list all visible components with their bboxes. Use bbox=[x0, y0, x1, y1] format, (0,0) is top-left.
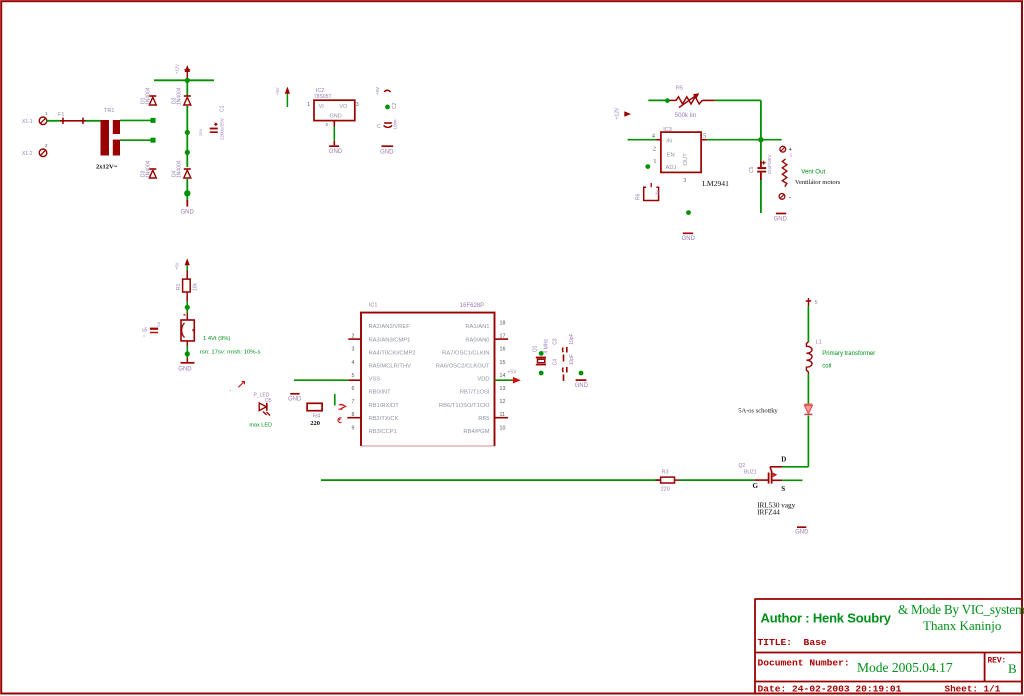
Vent Out green label bbox=[801, 169, 825, 176]
capacitor C1 labels bbox=[198, 105, 226, 140]
svg-text:5: 5 bbox=[815, 300, 818, 306]
svg-text:3: 3 bbox=[683, 177, 686, 184]
svg-text:6: 6 bbox=[352, 386, 355, 392]
junction below crystal bbox=[539, 371, 544, 376]
wire +12V rail horizontal bbox=[154, 79, 214, 81]
svg-text:+5V: +5V bbox=[508, 369, 518, 375]
svg-text:R3: R3 bbox=[662, 469, 669, 475]
capacitor C5 name bbox=[749, 166, 755, 173]
IC3 EN pin name bbox=[667, 152, 675, 158]
IC1 left pin name row 4 bbox=[369, 364, 412, 370]
capacitor C5 value bbox=[767, 154, 772, 175]
ground pin under rectifier bbox=[186, 200, 188, 207]
ground pin under trimpot bbox=[186, 359, 188, 363]
svg-text:GND: GND bbox=[288, 397, 302, 403]
svg-text:10k: 10k bbox=[192, 282, 198, 291]
inductor L1 annotation bbox=[822, 351, 875, 369]
resistor R4 value bbox=[310, 420, 320, 427]
capacitor C3 name bbox=[553, 338, 559, 345]
svg-text:C2: C2 bbox=[392, 102, 398, 109]
wire rectifier vertical bbox=[186, 80, 188, 200]
wire VSS pin 5 bbox=[294, 379, 361, 381]
svg-text:RB2/TX/CK: RB2/TX/CK bbox=[369, 416, 399, 422]
IC1 right pin 17 number bbox=[500, 334, 506, 340]
output pad O- bbox=[779, 194, 791, 202]
svg-text:2200u/25V: 2200u/25V bbox=[220, 118, 225, 140]
junction under trimpot bbox=[185, 351, 190, 356]
transformer TR1 value label bbox=[96, 164, 118, 171]
IC1 left pin name row 5 bbox=[369, 377, 381, 383]
IC1 right pin 13 number bbox=[500, 386, 506, 392]
IC2 VI pin name bbox=[319, 104, 325, 110]
ground symbol under C2 bbox=[380, 146, 394, 155]
wire pad to fuse bbox=[47, 120, 60, 122]
MOSFET type annotation bbox=[757, 502, 796, 517]
resistor R1 bbox=[183, 279, 191, 292]
title block document number row bbox=[758, 658, 953, 676]
svg-text:X1-2: X1-2 bbox=[22, 151, 33, 157]
IC3 OUT pin name bbox=[683, 153, 689, 166]
svg-text:25V: 25V bbox=[198, 129, 203, 136]
svg-text:4: 4 bbox=[652, 133, 656, 140]
IC1 pin 17 stub bbox=[495, 338, 509, 340]
ground GND under rectifier bbox=[181, 210, 195, 216]
MOSFET source label bbox=[781, 485, 785, 493]
svg-text:G: G bbox=[753, 482, 759, 490]
IC3 type label bbox=[702, 179, 729, 188]
green annotation line 2 bbox=[200, 349, 261, 355]
svg-text:78S05T: 78S05T bbox=[314, 94, 332, 100]
junction above C2 bbox=[385, 105, 390, 110]
net arrow flag near LED bbox=[228, 382, 245, 392]
capacitor C6 bbox=[142, 321, 161, 338]
title block author text bbox=[761, 611, 892, 626]
wire secondary bottom to node bbox=[120, 138, 156, 143]
svg-text:GND: GND bbox=[178, 367, 192, 373]
IC1 left pin name row 9 bbox=[369, 429, 397, 435]
svg-text:RB4/PGM: RB4/PGM bbox=[463, 429, 489, 435]
svg-text:F1: F1 bbox=[58, 112, 64, 118]
svg-text:EN: EN bbox=[667, 152, 675, 158]
IC1 left pin name row 2 bbox=[369, 337, 411, 343]
resistor R3 value bbox=[661, 487, 670, 493]
IC1 right pin name row 4 bbox=[436, 364, 490, 370]
junction on ADJ net bbox=[645, 164, 650, 169]
IC3 pin 5 number bbox=[703, 133, 706, 140]
IC1 left pin name row 1 bbox=[369, 324, 411, 330]
wire stub near PIC pin6 bbox=[334, 394, 336, 406]
MOSFET Q2 bbox=[769, 467, 783, 484]
MOSFET Q2 drain label bbox=[781, 455, 786, 463]
wire trimpot to GND bbox=[186, 346, 188, 359]
IC1 right pin 14 number bbox=[500, 373, 506, 379]
IC1 right pin 18 number bbox=[500, 321, 506, 327]
junction R1-trimpot bbox=[185, 305, 190, 310]
net flag at PIC pin7 bbox=[338, 404, 345, 409]
diode D2 labels bbox=[172, 87, 183, 105]
svg-text:VSS: VSS bbox=[369, 377, 381, 383]
svg-text:1 4Vt (9%): 1 4Vt (9%) bbox=[203, 336, 230, 342]
svg-text:RA1/AN1: RA1/AN1 bbox=[465, 324, 489, 330]
IC3 pin 3 number bbox=[683, 177, 686, 184]
IC1 left pin 3 number bbox=[352, 347, 355, 353]
svg-text:GND: GND bbox=[181, 210, 195, 216]
wire into LM2941 IN bbox=[628, 139, 661, 141]
svg-text:Thanx Kaninjo: Thanx Kaninjo bbox=[923, 618, 1001, 633]
wire OUT of LM2941 bbox=[701, 139, 782, 141]
MOSFET Q2 name labels bbox=[739, 463, 758, 476]
svg-text:5: 5 bbox=[352, 373, 355, 379]
wire output vertical bbox=[760, 100, 762, 213]
svg-text:C3: C3 bbox=[553, 338, 559, 345]
+5V arrow near IC2 bbox=[275, 87, 290, 108]
IC1 right pin 12 number bbox=[500, 399, 506, 405]
svg-text:S: S bbox=[781, 485, 785, 493]
IC2 VO pin name bbox=[339, 104, 348, 110]
IC1 left pin name row 8 bbox=[369, 416, 399, 422]
transformer TR1 secondary bottom winding bbox=[113, 140, 120, 156]
resistor R3 name bbox=[662, 469, 669, 475]
resistor R1 top pin bbox=[186, 271, 188, 280]
wire L1 to schottky bbox=[807, 374, 809, 404]
svg-text:Ventilátor motors: Ventilátor motors bbox=[795, 179, 841, 186]
capacitor C4 bbox=[563, 367, 567, 381]
svg-text:13: 13 bbox=[500, 386, 506, 392]
svg-text:Document Number:: Document Number: bbox=[758, 658, 850, 669]
potentiometer R5 bbox=[676, 93, 702, 107]
resistor R6 under IC3 bbox=[636, 183, 662, 201]
svg-text:1N4004: 1N4004 bbox=[146, 160, 152, 178]
voltage regulator IC2 box bbox=[314, 100, 355, 120]
svg-text:LM2941: LM2941 bbox=[702, 179, 729, 188]
svg-text:2: 2 bbox=[325, 122, 328, 127]
svg-text:X1-1: X1-1 bbox=[22, 119, 33, 125]
IC1 left pin 2 number bbox=[352, 334, 355, 340]
svg-text:RB0/INT: RB0/INT bbox=[369, 390, 392, 396]
svg-text:14: 14 bbox=[500, 373, 506, 379]
svg-text:1N4004: 1N4004 bbox=[177, 87, 183, 105]
svg-text:1: 1 bbox=[790, 152, 793, 157]
svg-text:Mode 2005.04.17: Mode 2005.04.17 bbox=[857, 660, 953, 675]
trimpot R2 top pin bbox=[184, 313, 188, 320]
junction near resonator GND bbox=[579, 371, 584, 376]
IC1 left pin 9 number bbox=[352, 425, 355, 431]
capacitor C5 bbox=[757, 161, 766, 180]
svg-text:15: 15 bbox=[500, 360, 506, 366]
IC1 right pin name row 6 bbox=[460, 390, 490, 396]
svg-text:Q1: Q1 bbox=[533, 345, 539, 352]
svg-text:OUT: OUT bbox=[683, 153, 689, 166]
svg-text:RA6/OSC2/CLKOUT: RA6/OSC2/CLKOUT bbox=[436, 364, 490, 370]
MOSFET gate label bbox=[753, 482, 759, 490]
LED D5 name labels bbox=[254, 392, 272, 403]
svg-text:C: C bbox=[377, 124, 381, 130]
+12V label near LM2941 bbox=[615, 107, 632, 119]
svg-text:16: 16 bbox=[500, 347, 506, 353]
IC1 left pin name row 6 bbox=[369, 390, 392, 396]
IC1 name label bbox=[369, 303, 378, 309]
schottky annotation bbox=[738, 408, 778, 415]
IC1 left pin 5 number bbox=[352, 373, 355, 379]
svg-text:Date: 24-02-2003 20:19:01: Date: 24-02-2003 20:19:01 bbox=[758, 684, 902, 695]
resistor R3 bbox=[656, 477, 680, 483]
svg-text:IN: IN bbox=[666, 139, 672, 145]
IC1 right pin 16 number bbox=[500, 347, 506, 353]
svg-text:B: B bbox=[1008, 661, 1017, 676]
capacitor C4 name bbox=[553, 359, 559, 366]
title block outline bbox=[755, 599, 1023, 693]
output pad O+ bbox=[780, 146, 793, 157]
svg-text:5: 5 bbox=[703, 133, 706, 140]
+5V arc symbol above C2 bbox=[375, 87, 390, 95]
IC1 right pin name row 7 bbox=[439, 403, 490, 409]
svg-text:12: 12 bbox=[500, 399, 506, 405]
svg-text:500k lin: 500k lin bbox=[675, 112, 697, 119]
ground symbol under IC2 bbox=[329, 146, 343, 155]
title block mod-by text bbox=[898, 602, 1024, 633]
connector pad X1-1 bbox=[22, 111, 48, 125]
IC1 left pin 4 number bbox=[352, 360, 355, 366]
svg-text:18: 18 bbox=[500, 321, 506, 327]
svg-text:max LED: max LED bbox=[249, 423, 272, 429]
ground symbol under resonator bbox=[575, 380, 589, 389]
resistor R1 labels bbox=[176, 282, 198, 291]
junction under IC3 GND pin bbox=[686, 210, 691, 215]
IC1 right pin 10 number bbox=[500, 425, 506, 431]
svg-text:R1: R1 bbox=[176, 283, 182, 290]
svg-text:10pF: 10pF bbox=[569, 354, 575, 365]
potentiometer R5 wire left bbox=[648, 99, 676, 101]
schottky diode D6 bbox=[804, 404, 812, 414]
IC1 type label bbox=[460, 303, 484, 309]
svg-text:GND: GND bbox=[774, 217, 788, 223]
svg-text:D: D bbox=[781, 455, 786, 463]
svg-text:RA7/OSC1/CLKIN: RA7/OSC1/CLKIN bbox=[442, 350, 489, 356]
svg-text:+: + bbox=[789, 147, 793, 153]
svg-text:GND: GND bbox=[380, 150, 394, 156]
capacitor C4 value bbox=[569, 354, 575, 365]
ground symbol near PIC pin5 bbox=[288, 394, 302, 403]
svg-text:Primary transformer: Primary transformer bbox=[822, 351, 875, 357]
microcontroller IC1 box bbox=[361, 313, 495, 446]
green annotation line 1 bbox=[203, 336, 230, 342]
potentiometer R5 value bbox=[675, 112, 697, 119]
resistor R4 name bbox=[313, 414, 320, 420]
svg-text:RB7/T1OSI: RB7/T1OSI bbox=[460, 390, 490, 396]
wire drain horizontal bbox=[770, 466, 808, 468]
IC2 name label bbox=[316, 88, 325, 94]
IC1 pin 2 stub bbox=[348, 338, 361, 340]
IC3 pin 1 number bbox=[653, 158, 656, 165]
svg-text:RB3/CCP1: RB3/CCP1 bbox=[369, 429, 397, 435]
svg-text:VI: VI bbox=[319, 104, 325, 110]
svg-text:REV:: REV: bbox=[988, 658, 1007, 666]
svg-text:+5V: +5V bbox=[375, 87, 380, 95]
IC3 pin 2 number bbox=[653, 146, 656, 153]
junction output node bbox=[758, 137, 763, 142]
title block date row bbox=[758, 684, 1001, 695]
+5V arrow above R1 bbox=[175, 258, 190, 270]
svg-text:RA0/AN0: RA0/AN0 bbox=[465, 337, 489, 343]
inductor L1 name bbox=[816, 339, 822, 345]
Ventilator motors label bbox=[795, 179, 841, 186]
svg-text:Author : Henk Soubry: Author : Henk Soubry bbox=[761, 611, 892, 626]
wire source to right bbox=[782, 479, 802, 481]
title block TITLE row bbox=[758, 637, 827, 648]
IC1 right pin name row 9 bbox=[463, 429, 489, 435]
capacitor C3 value bbox=[569, 333, 575, 344]
crystal Q1 name bbox=[533, 345, 539, 352]
wire schottky to drain bbox=[807, 416, 809, 467]
motor load zigzag bbox=[782, 159, 787, 187]
svg-text:5A-os schottky: 5A-os schottky bbox=[738, 408, 778, 415]
svg-text:220: 220 bbox=[310, 420, 320, 427]
IC1 right pin 15 number bbox=[500, 360, 506, 366]
capacitor C3 bbox=[563, 347, 567, 362]
wire fuse to transformer bbox=[86, 120, 101, 122]
svg-text:ADJ: ADJ bbox=[666, 165, 677, 171]
svg-text:C5: C5 bbox=[749, 166, 755, 173]
+12V supply arrow top bbox=[175, 64, 191, 80]
junction on pot wire bbox=[665, 98, 670, 103]
diode D3 labels bbox=[141, 160, 152, 178]
ground symbol under IC3 bbox=[682, 233, 696, 242]
IC1 left pin 6 number bbox=[352, 386, 355, 392]
LED D5 bbox=[259, 403, 270, 416]
diode D1 labels bbox=[141, 87, 152, 105]
IC2 pin 3 number bbox=[356, 102, 359, 108]
svg-text:IRFZ44: IRFZ44 bbox=[757, 509, 780, 517]
IC1 right pin 11 number bbox=[500, 412, 506, 418]
diode D3 bbox=[149, 169, 156, 178]
IC1 left pin name row 3 bbox=[369, 350, 416, 356]
voltage regulator IC3 box bbox=[661, 132, 701, 172]
svg-text:RB1/RX/DT: RB1/RX/DT bbox=[369, 403, 400, 409]
svg-text:R6: R6 bbox=[636, 193, 642, 200]
crystal Q1 value bbox=[544, 338, 550, 353]
fuse F1 bbox=[58, 112, 86, 124]
IC1 right pin name row 1 bbox=[465, 324, 489, 330]
svg-text:9: 9 bbox=[352, 425, 355, 431]
svg-text:4: 4 bbox=[352, 360, 355, 366]
resistor R4 bbox=[307, 403, 322, 410]
svg-text:R5: R5 bbox=[676, 86, 683, 92]
ground symbol under trimpot bbox=[178, 363, 194, 373]
svg-text:7: 7 bbox=[352, 399, 355, 405]
resistor R1 bottom pin bbox=[186, 292, 188, 302]
crystal Q1 bbox=[536, 357, 546, 366]
svg-text:1N4004: 1N4004 bbox=[146, 87, 152, 105]
wire VDD pin 14 with +5V arrow bbox=[495, 369, 521, 383]
svg-text:10pF: 10pF bbox=[569, 333, 575, 344]
svg-text:1: 1 bbox=[45, 111, 48, 116]
svg-text:3: 3 bbox=[352, 347, 355, 353]
IC1 left pin 7 number bbox=[352, 399, 355, 405]
IC2 value label bbox=[314, 94, 332, 100]
junction dots on rectifier wire bbox=[184, 130, 190, 197]
svg-text:TR1: TR1 bbox=[104, 108, 114, 114]
connector pad X1-2 bbox=[22, 143, 48, 157]
wire pot to corner bbox=[702, 99, 761, 101]
IC1 pin 8 stub bbox=[347, 417, 361, 419]
trimpot R2 bottom pin bbox=[186, 341, 188, 346]
diode D2 bbox=[184, 96, 191, 105]
junction above crystal bbox=[539, 351, 544, 356]
wire R1 to trimpot bbox=[186, 302, 188, 313]
svg-text:+: + bbox=[228, 389, 233, 392]
svg-text:RA4/T0CKI/CMP2: RA4/T0CKI/CMP2 bbox=[369, 350, 416, 356]
capacitor C2 value bbox=[393, 119, 398, 130]
svg-text:GND: GND bbox=[795, 530, 809, 536]
svg-text:L1: L1 bbox=[816, 339, 822, 345]
LED green annotation bbox=[249, 423, 272, 429]
IC1 left pin name row 7 bbox=[369, 403, 400, 409]
svg-text:coil: coil bbox=[822, 363, 831, 369]
svg-text:RB5: RB5 bbox=[478, 416, 489, 422]
trimpot R2 bbox=[181, 320, 195, 341]
svg-text:-: - bbox=[789, 195, 791, 201]
svg-text:IC1: IC1 bbox=[369, 303, 378, 309]
svg-text:VO: VO bbox=[339, 104, 348, 110]
IC2 pin 2 number bbox=[325, 122, 328, 127]
IC3 name label bbox=[663, 127, 672, 133]
capacitor C1 bbox=[210, 123, 218, 133]
svg-text:1N4004: 1N4004 bbox=[177, 160, 183, 178]
IC3 IN pin name bbox=[666, 139, 672, 145]
svg-text:& Mode By VIC_system: & Mode By VIC_system bbox=[898, 602, 1024, 617]
svg-text:IC3: IC3 bbox=[663, 127, 672, 133]
IC2 GND pin name bbox=[330, 114, 342, 120]
svg-text:C1: C1 bbox=[220, 105, 226, 112]
svg-text:2: 2 bbox=[653, 146, 656, 153]
wire gate drive long bbox=[321, 479, 661, 481]
ground symbol right of output bbox=[774, 214, 788, 223]
IC1 right pin name row 3 bbox=[442, 350, 489, 356]
capacitor C2 bbox=[377, 122, 392, 130]
svg-text:RA3/AN3/CMP1: RA3/AN3/CMP1 bbox=[369, 337, 411, 343]
diode D1 bbox=[149, 96, 156, 105]
svg-text:BUZ1: BUZ1 bbox=[744, 470, 757, 476]
IC1 left pin 8 number bbox=[352, 412, 355, 418]
svg-text:RB6/T1OSO/T1CKI: RB6/T1OSO/T1CKI bbox=[439, 403, 490, 409]
svg-text:RA5/MCLR/THV: RA5/MCLR/THV bbox=[369, 364, 412, 370]
svg-text:rsn: 17sv: rrnsh: 10%-s: rsn: 17sv: rrnsh: 10%-s bbox=[200, 349, 261, 355]
svg-text:R4: R4 bbox=[313, 414, 320, 420]
svg-text:2: 2 bbox=[45, 143, 48, 148]
svg-text:1: 1 bbox=[307, 102, 310, 108]
IC2 pin 1 number bbox=[307, 102, 310, 108]
svg-text:RA2/AN2/VREF: RA2/AN2/VREF bbox=[369, 324, 411, 330]
IC1 pin 11 stub bbox=[495, 417, 509, 419]
junction at +12V rail bbox=[185, 78, 190, 83]
capacitor C2 name bbox=[392, 102, 398, 109]
svg-text:GND: GND bbox=[329, 149, 343, 155]
svg-text:2x12V~: 2x12V~ bbox=[96, 164, 118, 171]
svg-text:Vent Out: Vent Out bbox=[801, 169, 825, 176]
svg-text:Q2: Q2 bbox=[739, 463, 746, 469]
transformer TR1 name label bbox=[104, 108, 114, 114]
IC2 ground pin wire bbox=[333, 121, 335, 146]
svg-text:1: 1 bbox=[653, 158, 656, 165]
svg-text:+5V: +5V bbox=[275, 87, 280, 95]
svg-text:+12V: +12V bbox=[615, 107, 621, 119]
svg-text:220: 220 bbox=[661, 487, 670, 493]
svg-text:10: 10 bbox=[500, 425, 506, 431]
svg-text:C6: C6 bbox=[156, 321, 161, 327]
svg-text:100n: 100n bbox=[393, 119, 398, 130]
svg-text:C4: C4 bbox=[553, 359, 559, 366]
transformer TR1 primary winding bbox=[101, 120, 110, 156]
